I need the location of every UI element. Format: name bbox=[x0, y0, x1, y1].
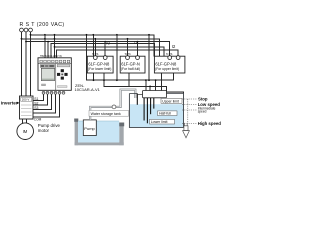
svg-text:(For half-full): (For half-full) bbox=[121, 67, 140, 71]
wire bus L5 bbox=[54, 35, 56, 58]
svg-text:High speed: High speed bbox=[198, 121, 222, 126]
wire bus L4 bbox=[51, 43, 155, 58]
outflow arrow bbox=[183, 123, 190, 138]
svg-text:motor: motor bbox=[38, 128, 50, 133]
svg-text:61F-GP-N8: 61F-GP-N8 bbox=[155, 62, 177, 67]
wire electrode bus H1b bbox=[87, 35, 174, 80]
svg-text:Upper limit: Upper limit bbox=[162, 99, 179, 103]
electrode E4 bbox=[153, 98, 155, 109]
wire 61F no1 top entry bbox=[92, 35, 94, 56]
right tank (storage) bbox=[129, 93, 183, 127]
wire T vertical bbox=[30, 32, 32, 96]
motor M1 bbox=[17, 123, 34, 140]
wire electrode bus H1 bbox=[93, 73, 95, 80]
wire inverter to motor b bbox=[26, 119, 28, 123]
wire ZEN feed b bbox=[47, 42, 49, 58]
wire holder feed b bbox=[149, 86, 151, 90]
wire ZEN feed a bbox=[44, 35, 46, 58]
terminal R bbox=[20, 28, 24, 32]
wire inter-box drop a bbox=[116, 35, 118, 80]
wire drop to 61F no1 terminal b bbox=[104, 42, 106, 56]
wire electrode bus H2 bbox=[104, 73, 184, 93]
svg-text:TB2 AC100-240V IN: TB2 AC100-240V IN bbox=[40, 55, 62, 58]
svg-text:(For lower limit): (For lower limit) bbox=[88, 67, 111, 71]
label upper limit bbox=[161, 98, 182, 103]
pump P1 bbox=[83, 120, 96, 136]
wire ZEN out to S1 bbox=[33, 95, 44, 101]
left tank (sump) bbox=[74, 119, 124, 146]
wire bus L7 bbox=[57, 50, 179, 58]
svg-text:(For upper limit): (For upper limit) bbox=[155, 67, 179, 71]
common electrode bbox=[136, 94, 138, 105]
pipe bbox=[90, 90, 135, 120]
dashed leaders bbox=[182, 99, 197, 124]
wire inverter to motor a bbox=[22, 119, 24, 123]
svg-text:Lower limit: Lower limit bbox=[151, 120, 168, 124]
svg-text:Water storage tank: Water storage tank bbox=[91, 112, 121, 116]
electrode E3 bbox=[150, 98, 152, 114]
wire 61F no2 bottom stub bbox=[128, 73, 130, 86]
water storage tank label bbox=[89, 110, 129, 116]
svg-text:200 V: 200 V bbox=[22, 98, 30, 102]
wire bus L2 bbox=[22, 39, 160, 57]
wire drop to 61F no1 terminal a bbox=[94, 39, 96, 56]
wire bus L1 bbox=[31, 35, 154, 57]
terminal T bbox=[29, 28, 33, 32]
terminal S bbox=[24, 28, 28, 32]
junction dots bbox=[21, 34, 157, 87]
relay 61F no2 bbox=[120, 52, 145, 73]
svg-text:COM: COM bbox=[34, 117, 42, 121]
wire ZEN out COM bbox=[33, 95, 60, 117]
wire ZEN out to S2 bbox=[33, 95, 48, 105]
valve V1 bbox=[112, 105, 116, 109]
inverter U2 bbox=[20, 96, 34, 119]
svg-text:I1: I1 bbox=[134, 40, 138, 45]
svg-text:I0: I0 bbox=[106, 41, 110, 46]
svg-text:Stop: Stop bbox=[198, 96, 208, 101]
svg-text:Inverter: Inverter bbox=[1, 101, 18, 106]
electrode E2 bbox=[146, 98, 148, 124]
wire inter-box drop b bbox=[148, 35, 150, 80]
wire drop to 61F no2 terminal b bbox=[137, 42, 139, 56]
label lower limit bbox=[150, 119, 175, 124]
wire S vertical bbox=[25, 32, 27, 96]
label half-full bbox=[158, 111, 178, 116]
svg-text:Pump: Pump bbox=[84, 126, 95, 131]
relay 61F no3 bbox=[154, 52, 185, 73]
electrode E1 bbox=[143, 98, 145, 121]
wire bus L3 bbox=[26, 42, 170, 56]
svg-text:10C1AR-A-V1: 10C1AR-A-V1 bbox=[75, 87, 101, 92]
svg-text:R S T (200 VAC): R S T (200 VAC) bbox=[20, 22, 65, 28]
svg-text:S2: S2 bbox=[34, 102, 38, 106]
wire ZEN out to S3 bbox=[33, 95, 52, 110]
svg-text:Half-full: Half-full bbox=[159, 112, 171, 116]
wire holder feed c bbox=[155, 80, 157, 90]
electrode holder bbox=[143, 91, 167, 98]
svg-text:speed: speed bbox=[198, 110, 207, 114]
ZEN unit U1 bbox=[38, 55, 71, 94]
wire bus L6 bbox=[55, 47, 165, 57]
wire 61F no3 bottom stub bbox=[160, 73, 162, 91]
wire holder feed a bbox=[145, 80, 147, 90]
wire ZEN out 4 bbox=[33, 95, 56, 114]
svg-text:S1: S1 bbox=[34, 97, 38, 101]
svg-text:S3: S3 bbox=[34, 106, 38, 110]
svg-text:I2: I2 bbox=[172, 44, 176, 49]
svg-text:61F-GP-N8: 61F-GP-N8 bbox=[88, 62, 110, 67]
relay 61F no1 bbox=[87, 52, 113, 73]
wire R vertical bbox=[21, 32, 23, 96]
wire drop to 61F no2 terminal a bbox=[127, 39, 129, 56]
svg-text:61F-GP-N: 61F-GP-N bbox=[121, 62, 140, 67]
svg-text:IM: IM bbox=[23, 129, 28, 134]
